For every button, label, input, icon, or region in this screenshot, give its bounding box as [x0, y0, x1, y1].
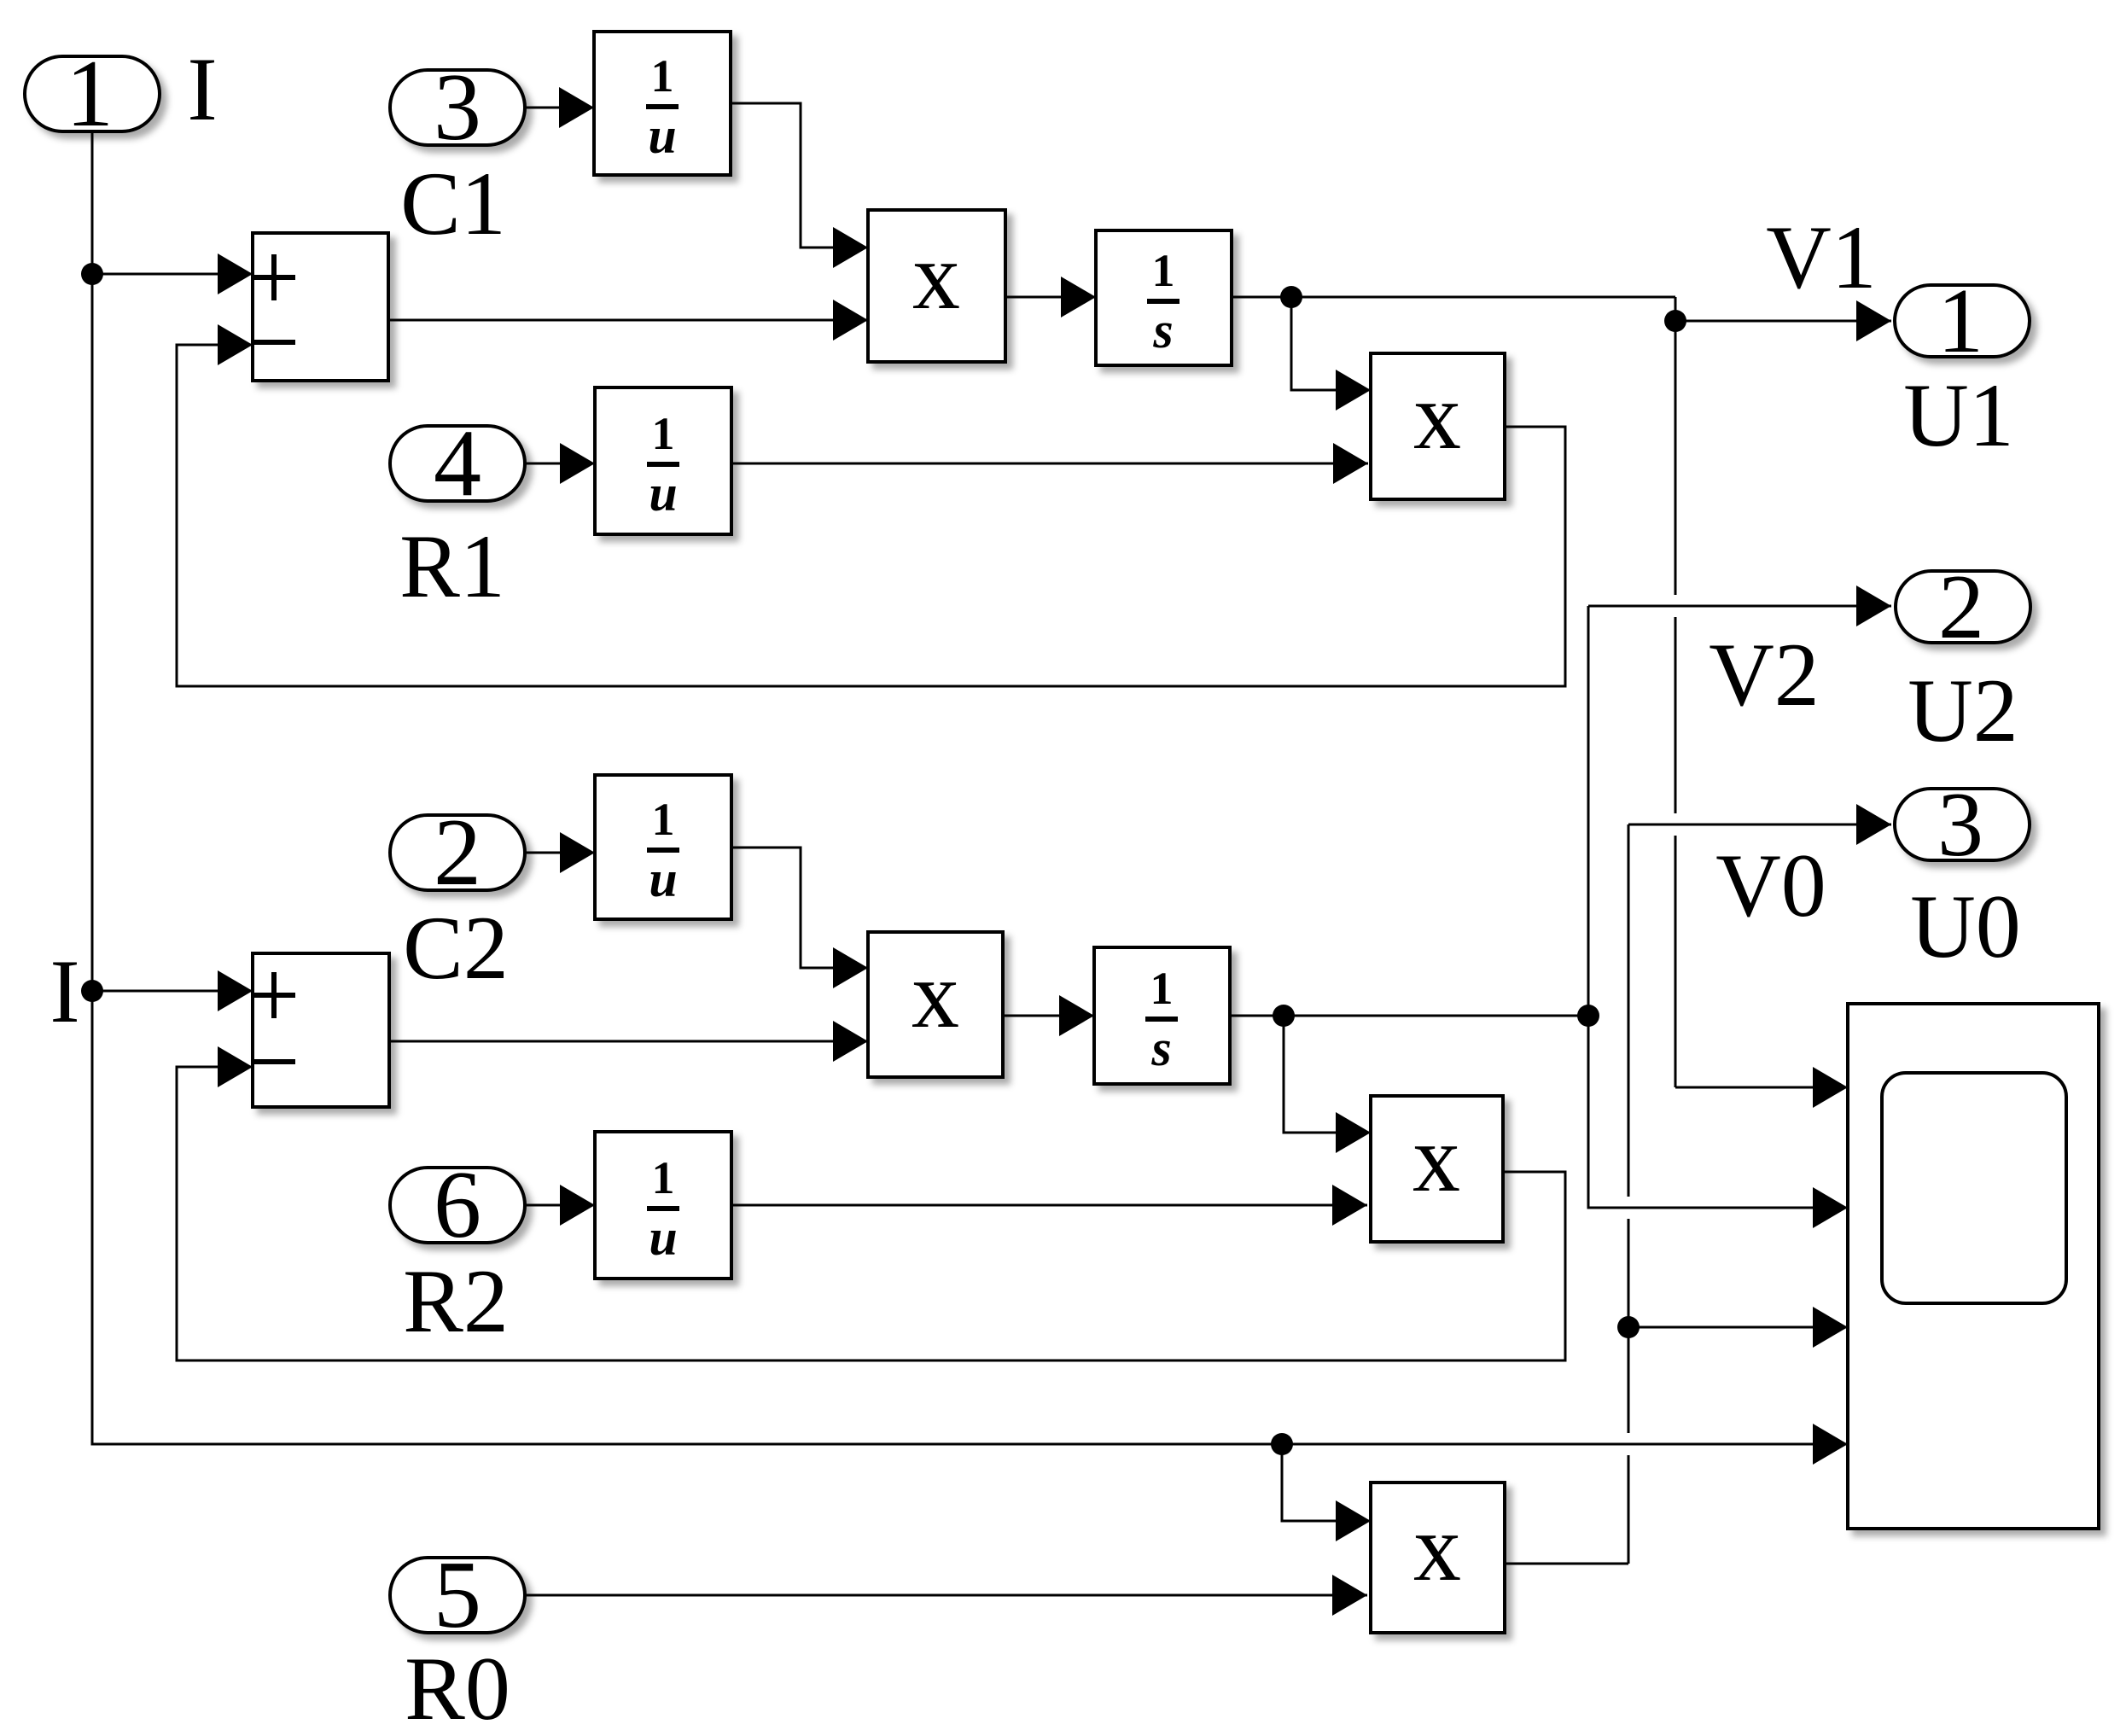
- svg-text:U2: U2: [1908, 661, 2018, 760]
- svg-text:1: 1: [652, 408, 675, 459]
- svg-text:x: x: [1413, 364, 1461, 469]
- svg-text:1: 1: [1152, 245, 1175, 296]
- svg-text:x: x: [912, 942, 959, 1048]
- svg-text:I: I: [187, 39, 217, 139]
- svg-text:s: s: [1152, 302, 1173, 358]
- svg-text:1: 1: [66, 41, 114, 147]
- svg-text:u: u: [649, 465, 677, 521]
- svg-text:2: 2: [434, 800, 481, 906]
- svg-text:1: 1: [1937, 271, 1983, 372]
- svg-text:1: 1: [1150, 963, 1174, 1014]
- svg-text:R2: R2: [403, 1251, 509, 1351]
- svg-text:x: x: [1413, 1495, 1461, 1601]
- svg-text:2: 2: [1938, 556, 1984, 658]
- svg-text:U0: U0: [1910, 877, 2021, 976]
- svg-text:u: u: [649, 1209, 677, 1266]
- svg-text:C1: C1: [400, 154, 506, 253]
- svg-text:V0: V0: [1715, 836, 1826, 935]
- svg-text:1: 1: [652, 794, 675, 845]
- svg-text:V2: V2: [1709, 625, 1820, 725]
- svg-text:C2: C2: [403, 898, 509, 998]
- svg-text:R0: R0: [405, 1639, 510, 1736]
- svg-text:3: 3: [434, 55, 481, 160]
- svg-text:5: 5: [434, 1542, 481, 1648]
- svg-text:x: x: [912, 224, 960, 329]
- svg-text:u: u: [648, 108, 676, 164]
- svg-text:4: 4: [434, 411, 481, 516]
- svg-text:V1: V1: [1766, 207, 1877, 307]
- svg-text:s: s: [1150, 1020, 1171, 1076]
- svg-text:x: x: [1412, 1106, 1460, 1212]
- svg-text:R1: R1: [399, 516, 505, 616]
- svg-text:1: 1: [652, 1152, 675, 1203]
- svg-text:3: 3: [1937, 774, 1983, 876]
- svg-text:6: 6: [434, 1152, 481, 1258]
- svg-text:U1: U1: [1903, 365, 2014, 465]
- svg-text:I: I: [50, 941, 79, 1041]
- svg-text:u: u: [649, 851, 677, 907]
- svg-text:1: 1: [651, 50, 674, 102]
